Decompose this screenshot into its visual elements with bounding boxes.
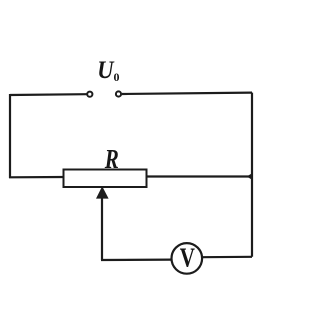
wire top-right horizontal — [122, 93, 252, 94]
wire resistor row right — [146, 175, 250, 177]
wire wiper vertical — [101, 194, 103, 260]
wire left vertical — [9, 94, 11, 178]
svg-text:V: V — [180, 243, 196, 273]
wiper arrowhead — [96, 186, 109, 198]
wire voltmeter to right vertical — [202, 256, 252, 259]
voltmeter V circle — [172, 243, 203, 274]
terminal circle right — [116, 91, 121, 96]
wire top-left horizontal — [10, 93, 87, 96]
resistor R box — [64, 170, 147, 188]
junction node dot — [247, 173, 253, 181]
wire right vertical — [251, 93, 253, 257]
wire resistor row left — [9, 176, 64, 179]
svg-text:R: R — [104, 145, 119, 175]
svg-text:U: U — [97, 57, 115, 84]
terminal circle left — [87, 92, 92, 97]
wire bottom-left to voltmeter — [101, 259, 173, 262]
svg-text:0: 0 — [114, 70, 120, 84]
